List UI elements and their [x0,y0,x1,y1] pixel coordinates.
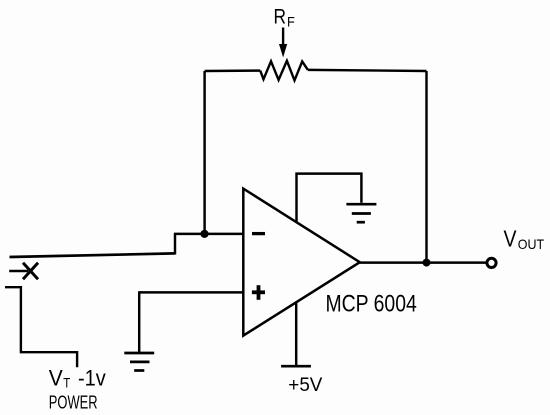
wire feedback top left segment [205,69,261,72]
ground symbol (non-inverting input) [124,353,154,371]
svg-text:V: V [504,225,518,251]
output terminal circle [487,258,496,267]
wire non-inverting ground vertical [138,291,140,353]
svg-text:-1v: -1v [78,366,106,391]
wire feedback left vertical [203,71,205,234]
wire op-amp bottom pin to +5V [295,302,297,367]
node junction dot at output [423,259,431,267]
+5V supply terminal bar [281,365,311,368]
wire main input (sloped) [10,253,176,257]
wire output [360,261,487,263]
ground symbol (op-amp top pin) [346,204,376,222]
label VOUT [504,225,545,252]
wire feedback right vertical [425,71,427,263]
op-amp U1 [243,189,359,336]
op-amp inverting input marker (minus) [252,232,265,235]
svg-text:+5V: +5V [288,375,322,396]
svg-text:OUT: OUT [518,236,545,252]
node junction dot at inverting input [200,230,208,238]
svg-text:F: F [287,14,295,29]
wire to non-inverting input [139,291,243,293]
svg-text:R: R [274,5,287,28]
svg-text:POWER: POWER [49,392,98,412]
X break mark [23,263,38,279]
label RF [274,5,295,29]
svg-text:MCP 6004: MCP 6004 [326,290,417,317]
resistor RF [260,61,308,81]
wire to inverting input [174,233,243,235]
svg-text:V: V [49,365,63,390]
wire VT source path [5,287,77,367]
wire input step vertical [174,234,176,255]
op-amp non-inverting input marker (plus) [252,285,265,300]
wire X stub [9,270,28,273]
wire feedback top right segment [308,70,427,71]
RF pointer arrow [279,28,287,58]
wire op-amp top pin to ground [297,174,362,223]
label VT -1v [49,365,106,390]
svg-text:T: T [63,375,70,390]
